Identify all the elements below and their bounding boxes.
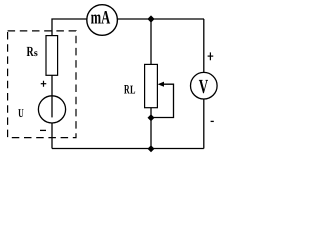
- svg-text:U: U: [18, 106, 24, 120]
- wire right side down to voltmeter: [203, 19, 205, 73]
- wire top rail from Rs corner to top-right corner: [52, 19, 204, 36]
- wire RL bottom lead: [150, 108, 152, 149]
- voltmeter V (circle): [191, 72, 218, 99]
- wire voltmeter bottom lead: [203, 99, 205, 149]
- junction dot on bottom rail: [148, 145, 155, 152]
- wire from source bottom to bottom-left corner: [51, 123, 53, 149]
- resistor Rs: [46, 36, 58, 76]
- ammeter mA (circle): [87, 5, 118, 36]
- dashed box (real source boundary): [8, 31, 76, 138]
- rheostat RL wiper arrow: [158, 82, 164, 87]
- - polarity of voltmeter: [211, 120, 214, 122]
- svg-text:V: V: [199, 76, 209, 98]
- junction dot at top rail: [147, 15, 154, 22]
- junction dot below RL: [148, 114, 155, 121]
- - polarity of source U: [40, 129, 46, 131]
- + polarity of source U: [41, 83, 47, 85]
- voltage source U (circle): [38, 96, 65, 123]
- rheostat RL (body): [145, 64, 158, 107]
- svg-text:mA: mA: [91, 7, 111, 28]
- wire bottom rail: [52, 148, 204, 150]
- wire from Rs bottom into source circle: [51, 75, 53, 117]
- svg-text:L: L: [130, 82, 136, 96]
- + polarity of voltmeter: [208, 55, 214, 57]
- svg-text:s: s: [34, 48, 38, 59]
- wire RL branch from top junction: [150, 19, 152, 64]
